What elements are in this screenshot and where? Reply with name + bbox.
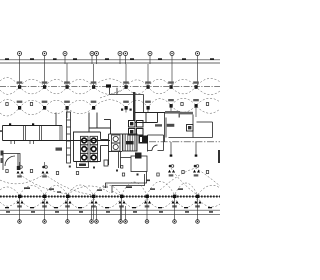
- bottom cluster 7: [172, 195, 179, 208]
- elevator hall walls: [74, 113, 111, 162]
- room right of core: [148, 135, 164, 152]
- row3 downlight cluster G: [168, 165, 175, 177]
- elevator lobby stub: [77, 162, 89, 168]
- grid bubble D1: [90, 52, 94, 56]
- bottom dim line 2: [0, 213, 220, 215]
- left band divider 2: [40, 126, 42, 141]
- core corridor wall: [104, 120, 111, 135]
- staircase: [123, 134, 138, 151]
- row1 fixtures FL: [18, 85, 198, 89]
- row3 downlight cluster A: [17, 166, 24, 178]
- row1 ceiling centerline: [0, 86, 220, 88]
- shaft cluster 2x2: [129, 121, 144, 136]
- forked drops: [92, 206, 126, 220]
- row3 wiring arcs: [0, 168, 220, 195]
- left band divider 1: [24, 126, 26, 141]
- grid drop lines: [20, 56, 198, 86]
- grid bubble A: [18, 52, 22, 56]
- left edge tick: [0, 130, 3, 132]
- top grid line 2: [0, 62, 220, 64]
- grid bubble E2: [124, 52, 128, 56]
- row2 wiring arcs: [0, 98, 220, 116]
- bottom cluster 2: [42, 195, 49, 208]
- partition above band: [55, 113, 57, 126]
- top grid line 1: [0, 59, 220, 61]
- grid bubble H: [196, 52, 200, 56]
- EL label: [56, 148, 63, 151]
- wire size labels: [24, 186, 183, 192]
- row2 FL labels: [17, 99, 199, 103]
- grid bubble D2: [95, 52, 99, 56]
- row3 ceiling devices: [6, 170, 209, 177]
- core walls right of bar: [135, 113, 193, 123]
- right zone thick walls: [165, 111, 179, 114]
- row3 downlight cluster B: [42, 166, 49, 178]
- bottom cluster 1: [17, 195, 24, 208]
- bottom cluster 6: [144, 195, 151, 208]
- below-core rooms: [119, 152, 148, 172]
- left room band bottom wall: [3, 140, 111, 142]
- fixture drop stubs: [20, 108, 197, 167]
- bottom wiring arcs: [0, 182, 220, 209]
- right room 1: [166, 115, 213, 138]
- row3 tiny marks: [69, 166, 150, 182]
- left lower room: [3, 154, 20, 171]
- grid bubble C: [63, 52, 67, 56]
- grid bubble E1: [118, 52, 122, 56]
- elevator cars: [81, 136, 98, 162]
- right small shaft: [187, 125, 194, 132]
- bottom cluster 8: [195, 195, 202, 208]
- bottom cluster 4: [91, 195, 98, 208]
- right room 2: [197, 122, 213, 138]
- bottom bubble dots: [19, 221, 198, 222]
- bottom drop lines: [20, 198, 198, 220]
- grid bubble F: [148, 52, 152, 56]
- service wall below row1: [110, 88, 144, 113]
- row1 FL labels: [17, 81, 199, 83]
- grid bubble G: [170, 52, 174, 56]
- wall left of right rooms: [164, 113, 166, 142]
- bottom dim line 1: [0, 209, 220, 211]
- dark shaft block: [139, 136, 149, 144]
- right edge dark bar: [218, 150, 220, 163]
- row3 downlight cluster H: [193, 165, 200, 177]
- row2 small ceiling devices: [6, 103, 209, 106]
- bottom bubbles: [18, 220, 200, 224]
- row1 wiring arcs: [0, 78, 220, 95]
- balcony double wall: [103, 172, 147, 194]
- curtain wall mullion band: [0, 196, 220, 198]
- row2 fixtures: [18, 104, 198, 110]
- vertical shaft column: [67, 112, 71, 163]
- corridor columns: [171, 142, 196, 155]
- core dark wall: [133, 92, 135, 120]
- bottom dimension texts: [5, 207, 213, 213]
- core outer walls: [109, 134, 123, 165]
- top dimension texts: [5, 58, 214, 59]
- left band right wall: [60, 126, 62, 141]
- band door ticks: [11, 141, 34, 145]
- grid bubble B: [43, 52, 47, 56]
- bubble dots: [19, 53, 198, 54]
- left room band top wall: [3, 125, 63, 127]
- corridor dashdot line: [149, 141, 220, 143]
- bottom cluster 5: [119, 195, 126, 208]
- bottom cluster 3: [65, 195, 72, 208]
- wc boxes with circles: [112, 135, 121, 151]
- band top ticks: [9, 123, 34, 125]
- left room band left wall: [2, 126, 4, 141]
